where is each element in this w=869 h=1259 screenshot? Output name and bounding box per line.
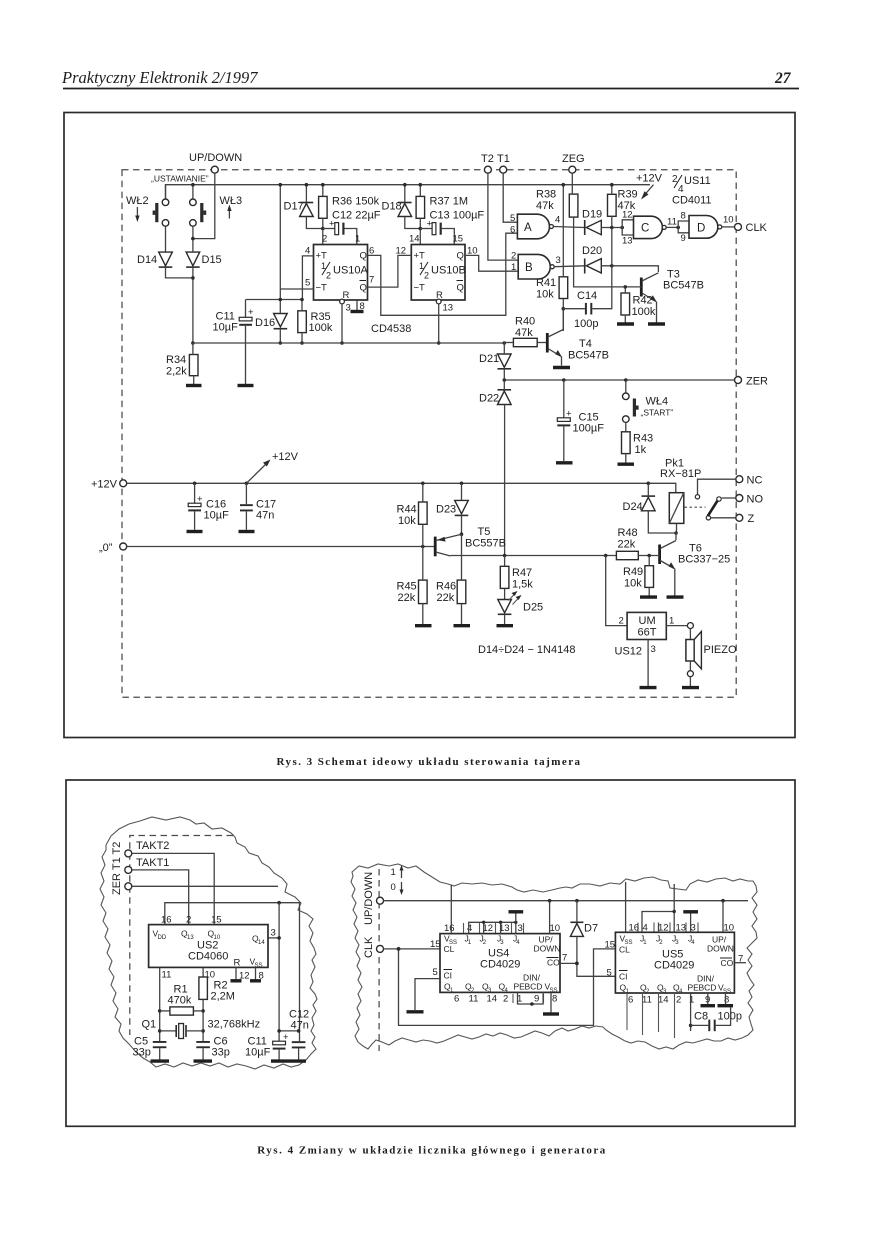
- svg-text:BC547B: BC547B: [663, 280, 704, 292]
- svg-text:CI: CI: [444, 971, 453, 981]
- svg-text:D21: D21: [479, 353, 499, 365]
- svg-text:0: 0: [391, 882, 396, 893]
- svg-text:R45: R45: [397, 581, 417, 593]
- svg-text:Praktyczny Elektronik 2/1997: Praktyczny Elektronik 2/1997: [61, 68, 258, 87]
- svg-text:D7: D7: [584, 923, 598, 935]
- svg-text:+12V: +12V: [636, 173, 663, 185]
- svg-text:WŁ2: WŁ2: [126, 195, 149, 207]
- svg-text:5: 5: [607, 968, 612, 979]
- wire: "0" base bus: [127, 546, 434, 548]
- svg-text:14: 14: [658, 995, 669, 1006]
- svg-text:Q: Q: [457, 283, 464, 294]
- svg-text:2: 2: [511, 251, 516, 262]
- terminal T2: [484, 166, 491, 173]
- WL2 arrow down: [136, 207, 138, 218]
- svg-text:3: 3: [271, 928, 276, 939]
- svg-text:„0”: „0”: [99, 542, 113, 554]
- torn board outline (right blob, Rys.4): [351, 864, 757, 1049]
- svg-text:R38: R38: [536, 189, 556, 201]
- svg-text:8: 8: [552, 994, 557, 1005]
- svg-text:CD4011: CD4011: [672, 195, 712, 207]
- svg-text:D14÷D24 − 1N4148: D14÷D24 − 1N4148: [478, 644, 575, 656]
- svg-text:NC: NC: [747, 475, 763, 487]
- ground under R34: [186, 384, 202, 387]
- wire: gate A out to D19: [553, 227, 584, 228]
- svg-text:5: 5: [510, 213, 515, 224]
- svg-text:R44: R44: [397, 504, 417, 516]
- svg-text:14: 14: [258, 940, 265, 946]
- ground under C16: [187, 530, 203, 533]
- svg-text:T1: T1: [497, 153, 510, 165]
- svg-text:13: 13: [187, 935, 194, 941]
- svg-text:CD4029: CD4029: [654, 960, 694, 972]
- US2 pin8 VSS ground: [255, 967, 257, 979]
- wire: WL2 top to bus: [165, 185, 167, 199]
- svg-text:D19: D19: [582, 209, 602, 221]
- wire: WL2 bottom to D14: [165, 226, 167, 252]
- svg-text:2: 2: [424, 271, 429, 281]
- ground under C5: [151, 1059, 170, 1062]
- svg-text:C: C: [641, 223, 649, 235]
- svg-text:D16: D16: [255, 317, 275, 329]
- svg-text:T4: T4: [579, 338, 592, 350]
- IC US12 UM66T: [627, 612, 666, 639]
- relay contact moving arm: [706, 516, 710, 520]
- ground under C17: [239, 530, 255, 533]
- ground under R46: [454, 624, 471, 627]
- svg-text:1: 1: [689, 995, 694, 1006]
- svg-text:PIEZO: PIEZO: [704, 644, 737, 656]
- svg-text:+T: +T: [414, 251, 426, 262]
- svg-text:CD4029: CD4029: [480, 959, 520, 971]
- US4 pin10 stub to rail: [549, 901, 551, 934]
- US5 pin8 ground: [725, 993, 727, 1004]
- svg-text:2: 2: [503, 994, 508, 1005]
- svg-text:T5: T5: [478, 526, 491, 538]
- svg-text:ZER: ZER: [746, 376, 768, 388]
- US10A pin3 R terminal: [340, 299, 345, 304]
- svg-text:A: A: [524, 222, 532, 234]
- gate D input bracket pins 8/9: [678, 221, 689, 233]
- wire: D20 anode to T3 collector: [601, 266, 658, 272]
- svg-text:10: 10: [723, 215, 734, 226]
- wire: WL3 top to bus: [192, 185, 194, 199]
- wire: reset bus y=343: [193, 342, 504, 344]
- wire: bus down to timing node: [279, 185, 281, 300]
- svg-text:22k: 22k: [618, 539, 636, 551]
- svg-text:2: 2: [619, 616, 624, 627]
- svg-text:15: 15: [430, 939, 441, 950]
- svg-text:TAKT2: TAKT2: [136, 840, 169, 852]
- terminal NO: [736, 495, 743, 502]
- svg-text:3: 3: [556, 255, 561, 266]
- terminal NC: [736, 476, 743, 483]
- svg-text:100p: 100p: [574, 318, 598, 330]
- svg-text:−T: −T: [316, 283, 328, 294]
- US5 pin16 dangling stub: [625, 882, 627, 932]
- terminal UP/DOWN (fig4): [377, 897, 384, 904]
- svg-text:D20: D20: [582, 245, 602, 257]
- wire: TAKT2 to US2 pin15: [132, 853, 214, 924]
- svg-text:1: 1: [391, 867, 396, 878]
- svg-text:4: 4: [643, 923, 648, 934]
- svg-text:CLK: CLK: [746, 222, 768, 234]
- terminal TAKT1: [125, 866, 132, 873]
- svg-text:CD4060: CD4060: [188, 951, 228, 963]
- svg-text:WŁ4: WŁ4: [646, 396, 669, 408]
- ground under D25: [497, 624, 514, 627]
- svg-text:9: 9: [681, 233, 686, 244]
- svg-text:1: 1: [355, 234, 360, 245]
- svg-text:ZEG: ZEG: [562, 153, 585, 165]
- wire: US10B Q(10) to gate B pin1: [465, 255, 518, 271]
- svg-text:Rys. 3 Schemat ideowy układu s: Rys. 3 Schemat ideowy układu sterowania …: [277, 756, 582, 768]
- ground under C11: [238, 384, 254, 387]
- svg-text:BC337−25: BC337−25: [678, 554, 730, 566]
- svg-text:66T: 66T: [638, 627, 657, 639]
- svg-text:1: 1: [511, 262, 516, 273]
- ground under piezo: [682, 686, 699, 689]
- svg-text:CL: CL: [619, 945, 630, 955]
- wire: US10A -T(5) input: [280, 288, 313, 290]
- US5 Q1-Q4 dangling stubs: [626, 993, 628, 1030]
- wire: UM66T pin3 to ground: [647, 640, 649, 687]
- svg-text:8: 8: [681, 211, 686, 222]
- svg-text:US10B: US10B: [431, 265, 466, 277]
- svg-text:D23: D23: [436, 504, 456, 516]
- relay contact Z wire: [711, 517, 736, 519]
- piezo speaker: [689, 629, 691, 640]
- US5 pin10 stub to rail: [722, 901, 724, 933]
- wire: gate D out to CLK: [722, 226, 735, 228]
- svg-text:PE: PE: [514, 982, 526, 992]
- svg-text:47k: 47k: [515, 327, 533, 339]
- relay contact NO wire: [722, 497, 736, 499]
- terminal ZEG: [569, 166, 576, 173]
- ground under R42: [617, 322, 634, 325]
- NAND gate B: [518, 254, 550, 279]
- svg-text:1k: 1k: [635, 444, 647, 456]
- wire: ZER line: [504, 379, 734, 381]
- svg-text:Q1: Q1: [142, 1019, 157, 1031]
- svg-text:R46: R46: [436, 581, 456, 593]
- svg-text:10µF: 10µF: [213, 322, 239, 334]
- wire: timing node line C11/D16/R35: [246, 299, 303, 301]
- svg-text:Z: Z: [748, 513, 755, 525]
- wire: D14/D15 join: [166, 267, 193, 343]
- ground under R45: [415, 624, 432, 627]
- svg-text:−T: −T: [414, 283, 426, 294]
- svg-text:PE: PE: [688, 983, 700, 993]
- wire: US2 pin11 column: [159, 967, 161, 1041]
- terminal +12V: [120, 480, 127, 487]
- svg-text:1,5k: 1,5k: [512, 579, 533, 591]
- wire: US2 Q14(3) output: [268, 937, 279, 939]
- svg-text:100k: 100k: [632, 306, 656, 318]
- svg-text:100µF: 100µF: [573, 423, 605, 435]
- svg-text:13: 13: [676, 923, 687, 934]
- svg-text:7: 7: [562, 953, 567, 964]
- wire: +12V setting bus y=184.7: [166, 185, 651, 199]
- svg-text:2: 2: [186, 915, 191, 926]
- svg-text:CO: CO: [721, 958, 734, 968]
- svg-text:1: 1: [669, 616, 674, 627]
- wire: +12V bus: [127, 483, 676, 492]
- svg-text:47n: 47n: [291, 1020, 309, 1032]
- svg-text:D: D: [697, 223, 705, 235]
- svg-text:22k: 22k: [437, 592, 455, 604]
- wire: US10B R pin to reset bus: [438, 304, 440, 343]
- svg-text:UP/DOWN: UP/DOWN: [363, 872, 375, 925]
- svg-text:11: 11: [469, 994, 479, 1005]
- svg-text:Q: Q: [360, 251, 367, 262]
- svg-text:12: 12: [658, 923, 669, 934]
- svg-text:R39: R39: [618, 189, 638, 201]
- svg-text:C12 22µF: C12 22µF: [332, 210, 381, 222]
- svg-text:+: +: [248, 307, 254, 318]
- svg-text:TAKT1: TAKT1: [136, 857, 169, 869]
- ground under T6: [667, 595, 684, 598]
- US10B pin13 R terminal: [436, 299, 441, 304]
- svg-text:6: 6: [454, 994, 459, 1005]
- svg-text:RX−81P: RX−81P: [660, 468, 701, 480]
- svg-text:C13 100µF: C13 100µF: [430, 210, 485, 222]
- NAND gate D: [689, 216, 718, 239]
- svg-text:„START”: „START”: [641, 408, 674, 418]
- svg-text:10µF: 10µF: [204, 510, 230, 522]
- svg-text:11: 11: [162, 970, 172, 981]
- svg-text:R34: R34: [166, 354, 186, 366]
- svg-text:470k: 470k: [168, 995, 192, 1007]
- svg-text:T2: T2: [481, 153, 494, 165]
- relay contact NC wire: [698, 479, 736, 495]
- svg-text:10k: 10k: [536, 289, 554, 301]
- svg-text:5: 5: [305, 278, 310, 289]
- svg-text:US12: US12: [615, 646, 643, 658]
- relay mechanical link (dashed): [685, 506, 706, 508]
- terminal UP/DOWN: [211, 166, 218, 173]
- terminal CLK (fig4): [377, 945, 384, 952]
- terminal ZER (fig4): [125, 883, 132, 890]
- svg-text:R48: R48: [618, 527, 638, 539]
- svg-text:11: 11: [667, 217, 677, 228]
- terminal T1: [500, 166, 507, 173]
- svg-text:CD4538: CD4538: [371, 323, 411, 335]
- ground under C15: [556, 461, 573, 464]
- svg-text:R36 150k: R36 150k: [332, 196, 380, 208]
- svg-text:US10A: US10A: [333, 265, 369, 277]
- svg-text:15: 15: [605, 940, 616, 951]
- svg-text:10µF: 10µF: [245, 1047, 271, 1059]
- wire: ZER stub to torn edge: [132, 885, 278, 887]
- svg-text:100p: 100p: [718, 1011, 742, 1023]
- US4 pin16 dangling stub: [450, 885, 452, 934]
- ground under R43: [618, 463, 635, 466]
- IC US10B (1/2 CD4538): [411, 245, 465, 301]
- wire: R38 bottom to T3 base line: [574, 217, 626, 287]
- US5 J4 high-level bar: [690, 913, 692, 933]
- svg-text:3: 3: [691, 923, 696, 934]
- wire: UM66T pin1 to piezo: [666, 625, 687, 627]
- wire: US4 CO to US5 CI: [560, 963, 615, 976]
- svg-text:CLK: CLK: [363, 936, 375, 958]
- svg-text:14: 14: [487, 994, 498, 1005]
- svg-text:3: 3: [651, 644, 656, 655]
- dashed boundary of timer control board (Rys.3): [122, 170, 736, 698]
- svg-text:DD: DD: [158, 935, 167, 941]
- svg-text:12: 12: [622, 210, 633, 221]
- US5 J1-J3 program tie: [642, 884, 674, 932]
- svg-text:C14: C14: [577, 290, 597, 302]
- svg-text:4: 4: [305, 246, 310, 257]
- NAND gate C: [634, 216, 663, 238]
- wire: US2 pin10 column: [202, 967, 204, 977]
- wire: VDD rail to C12: [165, 903, 300, 1041]
- terminal TAKT2: [125, 850, 132, 857]
- wire: TAKT1 to US2 pin2: [132, 870, 189, 925]
- svg-text:Rys. 4 Zmiany w układzie liczn: Rys. 4 Zmiany w układzie licznika główne…: [257, 1145, 606, 1157]
- svg-text:DOWN: DOWN: [707, 944, 734, 954]
- US4 J1-J4 program tie: [469, 922, 516, 933]
- terminal ZER: [735, 377, 742, 384]
- svg-text:ZER T1 T2: ZER T1 T2: [111, 842, 123, 895]
- svg-text:15: 15: [211, 915, 222, 926]
- dashed board-edge (right blob): [378, 869, 380, 1051]
- svg-text:13: 13: [622, 236, 633, 247]
- wire: gate B out to D20: [554, 265, 585, 268]
- terminal "0": [120, 543, 127, 550]
- svg-text:6: 6: [510, 225, 515, 236]
- US2 pin12 R ground: [235, 967, 237, 979]
- NAND gate A: [517, 214, 549, 239]
- svg-text:R40: R40: [515, 316, 535, 328]
- svg-text:„USTAWIANIE”: „USTAWIANIE”: [151, 174, 209, 184]
- svg-text:R37 1M: R37 1M: [430, 196, 469, 208]
- US10A pin8 stub: [356, 300, 358, 310]
- wire: D19 anode to gate C input node: [601, 227, 622, 229]
- svg-text:3: 3: [518, 923, 523, 934]
- US4 J-label separators: [464, 923, 524, 934]
- svg-text:10: 10: [550, 923, 561, 934]
- IC US2 CD4060: [149, 925, 268, 968]
- wire: Q14 node down to C11: [278, 903, 280, 1041]
- wire: T2 to gate B pin2: [488, 173, 518, 260]
- svg-text:C8: C8: [694, 1011, 708, 1023]
- svg-text:2: 2: [322, 234, 327, 245]
- svg-text:5: 5: [433, 967, 438, 978]
- wire: T5 collector bus: [450, 555, 616, 557]
- US5 CO stub to torn edge: [734, 962, 746, 964]
- svg-text:Q: Q: [457, 251, 464, 262]
- svg-text:Q: Q: [360, 283, 367, 294]
- svg-text:R43: R43: [633, 433, 653, 445]
- svg-text:16: 16: [444, 923, 455, 934]
- wire: US10A Q(6) to gate A pin6: [368, 233, 518, 315]
- svg-text:D24: D24: [623, 501, 643, 513]
- svg-text:BCD: BCD: [699, 983, 717, 993]
- header rule: [63, 88, 799, 90]
- US5 J-label separators: [638, 923, 698, 933]
- wire: US10A R pin to reset bus: [341, 304, 343, 343]
- ground under T3: [648, 322, 665, 325]
- svg-text:4: 4: [555, 215, 560, 226]
- svg-text:CI: CI: [619, 972, 628, 982]
- svg-text:+12V: +12V: [272, 451, 299, 463]
- svg-text:8: 8: [724, 995, 729, 1006]
- wire: D22 anode down to R47 node: [504, 405, 506, 556]
- IC US4 CD4029: [440, 934, 560, 993]
- US4 pin8 ground: [550, 992, 552, 1012]
- svg-text:22k: 22k: [398, 592, 416, 604]
- svg-text:33p: 33p: [133, 1047, 151, 1059]
- wire: relay to T6 collector: [675, 533, 677, 540]
- wire: US10A +T(4) input: [302, 256, 313, 300]
- terminal CLK: [735, 223, 742, 230]
- svg-text:9: 9: [534, 994, 539, 1005]
- svg-text:2: 2: [326, 271, 331, 281]
- svg-text:D14: D14: [137, 254, 157, 266]
- ground bar under C11/C12: [271, 1059, 306, 1062]
- svg-text:47k: 47k: [536, 200, 554, 212]
- torn board outline (left blob, Rys.4): [100, 817, 317, 1069]
- svg-text:BC547B: BC547B: [568, 350, 609, 362]
- svg-text:16: 16: [161, 915, 172, 926]
- svg-text:14: 14: [409, 234, 420, 245]
- svg-text:32,768kHz: 32,768kHz: [208, 1019, 261, 1031]
- wire: C11-C12 top tie: [279, 1030, 299, 1032]
- svg-text:D15: D15: [202, 254, 222, 266]
- ground under R49: [640, 595, 657, 598]
- svg-text:D22: D22: [479, 393, 499, 405]
- svg-text:WŁ3: WŁ3: [220, 195, 243, 207]
- IC US5 CD4029: [615, 932, 734, 993]
- US4 J4 high-level bar: [515, 913, 517, 923]
- svg-text:NO: NO: [747, 494, 764, 506]
- svg-text:33p: 33p: [212, 1047, 230, 1059]
- wire: WL3 bottom to D15: [192, 226, 194, 252]
- svg-text:BC557B: BC557B: [465, 538, 506, 550]
- svg-text:2,2M: 2,2M: [211, 991, 235, 1003]
- terminal Z: [736, 514, 743, 521]
- svg-text:3: 3: [346, 303, 351, 314]
- wire: US10A Qbar(7) to US10B +T(12): [368, 255, 412, 287]
- svg-text:7: 7: [369, 275, 374, 286]
- svg-text:CO: CO: [547, 958, 560, 968]
- svg-text:13: 13: [443, 303, 454, 314]
- svg-text:10: 10: [724, 923, 735, 934]
- relay Pk1 coil: [669, 493, 684, 524]
- US4 PE/BCD label bracket: [513, 994, 544, 1003]
- ground at US4 CI: [407, 1010, 424, 1013]
- svg-text:UM: UM: [639, 615, 656, 627]
- svg-text:R47: R47: [512, 567, 532, 579]
- svg-text:10k: 10k: [624, 578, 642, 590]
- ground under T4: [553, 366, 570, 369]
- svg-text:US11: US11: [684, 175, 711, 187]
- svg-text:100k: 100k: [309, 322, 333, 334]
- svg-text:R41: R41: [536, 277, 556, 289]
- wire: UP/DOWN terminal down and jog to WL3: [193, 173, 215, 238]
- wire: collector bus to UM66T: [606, 556, 627, 626]
- gate C input bracket pins 12/13: [622, 220, 633, 235]
- svg-text:+12V: +12V: [91, 479, 118, 491]
- svg-text:11: 11: [642, 995, 652, 1006]
- figure 3 outer frame: [64, 113, 795, 738]
- ground under C6: [194, 1059, 213, 1062]
- svg-text:UP/DOWN: UP/DOWN: [189, 152, 242, 164]
- IC US10A (1/2 CD4538): [314, 245, 368, 301]
- wire: UP/DOWN rail: [384, 900, 749, 902]
